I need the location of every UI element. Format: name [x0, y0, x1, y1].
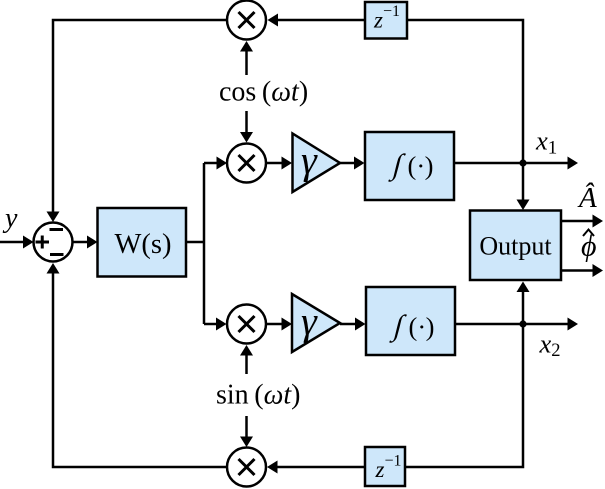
svg-text:W(s): W(s) [115, 229, 172, 260]
svg-text:x2: x2 [539, 329, 561, 362]
svg-text:(·): (·) [409, 312, 435, 342]
svg-text:(·): (·) [408, 151, 434, 181]
svg-text:γ: γ [301, 299, 318, 344]
svg-text:sin (ωt): sin (ωt) [216, 380, 301, 411]
svg-text:x1: x1 [535, 126, 557, 159]
svg-text:cos (ωt): cos (ωt) [219, 77, 308, 108]
svg-text:Â: Â [577, 181, 597, 214]
svg-text:Output: Output [479, 232, 552, 261]
svg-text:y: y [2, 203, 18, 234]
svg-text:γ: γ [301, 138, 318, 183]
